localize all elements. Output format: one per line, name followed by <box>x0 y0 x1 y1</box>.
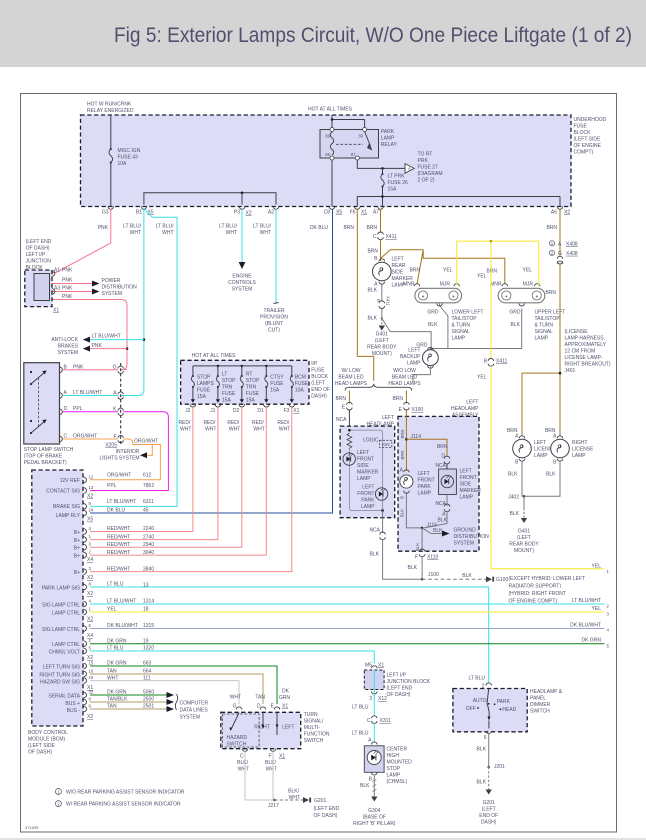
svg-text:YEL: YEL <box>443 268 453 274</box>
svg-text:LEFT I/P: LEFT I/P <box>26 252 46 258</box>
svg-text:J1: J1 <box>210 408 216 414</box>
wire BLK to G401 junction <box>381 309 383 319</box>
svg-text:LIGHTS SYSTEM: LIGHTS SYSTEM <box>99 456 139 462</box>
BCM box <box>32 470 83 726</box>
wire BRN brace left branch <box>348 391 350 404</box>
svg-text:J217: J217 <box>268 803 279 809</box>
svg-text:RED/: RED/ <box>252 420 265 426</box>
svg-text:BLOCK: BLOCK <box>311 374 329 380</box>
svg-text:10A: 10A <box>295 388 305 394</box>
LED lamp left front park <box>375 488 387 500</box>
svg-text:15A: 15A <box>246 398 256 404</box>
terminal F6/X1 <box>355 207 361 210</box>
svg-text:(DIAGRAM: (DIAGRAM <box>418 171 443 177</box>
svg-text:INTERIOR: INTERIOR <box>116 449 140 455</box>
arrow ABS LT BLU/WHT <box>83 337 90 343</box>
CHMSL LED lamp <box>367 751 381 765</box>
svg-text:TRAILER: TRAILER <box>263 308 285 314</box>
svg-text:X205: X205 <box>105 443 117 449</box>
svg-text:X12: X12 <box>378 696 387 702</box>
wire ORG/WHT F to interior lights and BCM <box>90 439 160 480</box>
svg-text:TAIL/STOP: TAIL/STOP <box>535 316 561 322</box>
wire LT BLU 1320 to junction block 2 <box>90 651 374 664</box>
wire LT BLU/WHT B1 to stop lamp switch <box>121 209 144 395</box>
svg-text:B: B <box>376 299 381 302</box>
switch link dashed <box>38 378 40 428</box>
svg-text:G201: G201 <box>483 800 495 806</box>
svg-text:C: C <box>367 718 371 724</box>
junction block JB1 outer <box>25 270 52 307</box>
svg-text:X408: X408 <box>566 241 578 247</box>
svg-text:BRN: BRN <box>545 428 556 434</box>
wire LT BLU/WHT B1 to BCM brake sig <box>90 209 177 506</box>
svg-text:LEFT: LEFT <box>460 469 472 475</box>
wire through junction block 2 <box>373 670 375 695</box>
svg-text:OF DASH): OF DASH) <box>314 813 338 819</box>
svg-text:B1: B1 <box>136 210 142 216</box>
wire LT BLU/WHT to ABS arrow <box>90 339 144 341</box>
wire DK GRN 19 bus5 <box>90 643 605 645</box>
connector X411 B (rotated labels) <box>379 301 385 309</box>
svg-text:BRN: BRN <box>409 268 420 274</box>
svg-text:F: F <box>415 555 418 561</box>
svg-text:PNK: PNK <box>62 294 73 300</box>
svg-text:WHT: WHT <box>266 767 277 773</box>
svg-text:B+: B+ <box>74 570 80 576</box>
wire PPL K to BCM contact sig <box>90 412 168 491</box>
svg-text:BLK: BLK <box>510 511 520 517</box>
svg-text:HOT AT ALL TIMES: HOT AT ALL TIMES <box>308 107 353 113</box>
wire internal bus to A6 <box>357 197 560 207</box>
terminal F X110 <box>419 549 425 557</box>
ground G401 left dashed <box>381 319 383 326</box>
svg-text:ORG/WHT: ORG/WHT <box>134 439 158 445</box>
svg-text:F: F <box>113 434 116 440</box>
svg-text:J100: J100 <box>428 572 439 578</box>
svg-text:LT BLU/WHT: LT BLU/WHT <box>572 598 601 604</box>
svg-text:BRN: BRN <box>546 225 557 231</box>
svg-text:WHT: WHT <box>238 767 249 773</box>
svg-text:FUSE: FUSE <box>197 388 211 394</box>
svg-text:LT: LT <box>222 372 227 378</box>
wire ORG/WHT C to F <box>63 438 119 440</box>
wire BLK dashed to G100 <box>422 578 486 580</box>
svg-text:2940: 2940 <box>143 542 154 548</box>
svg-text:NCA: NCA <box>336 417 347 423</box>
svg-text:DISTRIBUTION: DISTRIBUTION <box>102 285 138 291</box>
node fuse26 junction <box>381 167 384 170</box>
wire BLK/WHT F to J217 <box>272 752 274 801</box>
fuse F26 LT PRK <box>381 173 383 175</box>
svg-text:FRONT: FRONT <box>418 478 435 484</box>
svg-text:30: 30 <box>358 134 363 139</box>
svg-text:COMPUTER: COMPUTER <box>180 701 209 707</box>
svg-text:BRN: BRN <box>545 290 556 296</box>
svg-text:WHT: WHT <box>279 427 290 433</box>
svg-text:LEFT: LEFT <box>466 400 478 406</box>
dimmer switch lever <box>487 689 489 720</box>
connector arcs on BRN A6 wire <box>557 256 563 264</box>
svg-text:SYSTEM: SYSTEM <box>454 541 475 547</box>
svg-text:X100: X100 <box>412 407 424 413</box>
terminal A1 <box>52 271 55 277</box>
svg-text:3040: 3040 <box>143 550 154 556</box>
svg-text:HEAD LAMPS: HEAD LAMPS <box>388 381 421 387</box>
svg-text:X5: X5 <box>87 517 93 523</box>
relay switch arm <box>365 132 371 147</box>
svg-text:BACKUP: BACKUP <box>400 354 421 360</box>
header bar <box>0 0 646 67</box>
svg-text:PNK: PNK <box>62 278 73 284</box>
resistor in headlamp <box>347 433 352 448</box>
svg-text:LAMP: LAMP <box>460 495 474 501</box>
connector X205 K <box>118 408 123 415</box>
svg-text:YEL: YEL <box>477 375 487 381</box>
svg-text:G401: G401 <box>376 332 388 338</box>
svg-text:D: D <box>257 704 261 710</box>
svg-text:2 OF 2): 2 OF 2) <box>418 178 435 184</box>
svg-text:I/P: I/P <box>311 361 318 367</box>
svg-text:RELAY ENERGIZED: RELAY ENERGIZED <box>87 108 134 114</box>
svg-text:LT BLU/WHT: LT BLU/WHT <box>107 499 136 505</box>
wire TAN 2501 bus- <box>90 708 167 710</box>
svg-text:OF DASH): OF DASH) <box>28 750 52 756</box>
wire to X311 <box>373 694 375 717</box>
svg-text:BLK: BLK <box>433 528 443 534</box>
wire YEL turn network <box>457 241 539 358</box>
wire LT BLU/WHT 1314 bus2 <box>90 603 605 605</box>
svg-text:MOUNTED: MOUNTED <box>387 760 413 766</box>
svg-text:Fig 5: Exterior Lamps Circuit,: Fig 5: Exterior Lamps Circuit, W/O One P… <box>114 23 632 47</box>
wire YEL to bus1 <box>491 366 605 569</box>
wire RED/WHT D2 to BCM <box>90 407 242 547</box>
connector X408 1 A <box>549 241 554 246</box>
svg-text:PARK LAMP SIG: PARK LAMP SIG <box>42 586 80 592</box>
svg-text:RADIATOR SUPPORT): RADIATOR SUPPORT) <box>509 584 562 590</box>
ground G401 right dashed <box>523 508 525 518</box>
svg-text:PANEL: PANEL <box>530 696 546 702</box>
svg-text:(LEFT END: (LEFT END <box>314 806 340 812</box>
node J100 <box>421 578 424 581</box>
svg-text:D2: D2 <box>233 408 240 414</box>
wire PNK G3 to junction block A1 <box>52 209 111 272</box>
svg-text:B+: B+ <box>74 546 80 552</box>
svg-text:(TOP OF BRAKE: (TOP OF BRAKE <box>24 454 63 460</box>
terminal G3 <box>108 207 114 210</box>
svg-text:BLK: BLK <box>462 573 472 579</box>
wire BRN F6 to brace <box>357 209 373 381</box>
svg-text:LICENSE LAMP-: LICENSE LAMP- <box>565 355 603 361</box>
svg-text:C: C <box>373 234 377 240</box>
svg-text:DASH): DASH) <box>311 394 327 400</box>
wire PNK G up to main pink <box>123 369 127 371</box>
wire license lamps to J402 <box>522 461 560 508</box>
bottom strip <box>0 838 646 840</box>
connector X411 B yellow <box>488 359 494 367</box>
svg-text:15A: 15A <box>388 187 398 193</box>
svg-text:DIMMER: DIMMER <box>530 702 551 708</box>
svg-text:APPROXIMATELY: APPROXIMATELY <box>565 342 607 348</box>
terminal C stop switch <box>60 436 63 442</box>
svg-text:SIDE: SIDE <box>392 270 404 276</box>
svg-text:85: 85 <box>325 152 330 157</box>
terminal P3/X2 <box>239 207 245 210</box>
svg-text:PARK: PARK <box>381 129 395 135</box>
svg-text:F: F <box>268 754 271 760</box>
arrow power distribution 1 <box>92 281 100 287</box>
tail lamp upper terminals <box>502 284 540 306</box>
svg-text:DK BLU: DK BLU <box>310 225 328 231</box>
svg-text:LEFT: LEFT <box>282 725 294 731</box>
svg-text:FUSE 27: FUSE 27 <box>418 165 439 171</box>
svg-text:15A: 15A <box>222 398 232 404</box>
relay terminal circles <box>330 128 334 132</box>
svg-text:SIGNAL: SIGNAL <box>452 329 471 335</box>
svg-text:X110: X110 <box>427 555 439 561</box>
connector X411 C <box>378 232 384 240</box>
node backup ground junction <box>430 347 432 349</box>
svg-text:WHT: WHT <box>260 230 271 236</box>
svg-text:G201: G201 <box>314 798 326 804</box>
svg-text:GROUND: GROUND <box>454 528 477 534</box>
svg-text:13: 13 <box>89 485 94 490</box>
wire to bottom terminal <box>488 721 490 729</box>
svg-text:POWER: POWER <box>102 278 121 284</box>
svg-text:ORG/WHT: ORG/WHT <box>107 473 131 479</box>
backup lamp <box>423 350 439 366</box>
svg-text:& TURN: & TURN <box>535 323 554 329</box>
switch arm upper <box>31 372 45 384</box>
node exit <box>381 509 384 512</box>
svg-text:BRN: BRN <box>366 225 377 231</box>
svg-text:REAR: REAR <box>392 263 406 269</box>
svg-text:7862: 7862 <box>143 483 154 489</box>
wire BRN X411 to side marker B <box>380 240 382 262</box>
svg-text:RED/WHT: RED/WHT <box>107 542 130 548</box>
node J201 <box>487 766 490 769</box>
wire DK GRN 663 to turn switch E <box>90 666 277 704</box>
svg-text:CONTACT SIG: CONTACT SIG <box>46 489 80 495</box>
svg-text:SIGNAL: SIGNAL <box>535 329 554 335</box>
svg-text:G100: G100 <box>496 577 508 583</box>
svg-text:12: 12 <box>89 475 94 480</box>
svg-text:COMPT): COMPT) <box>574 150 594 156</box>
wire TAN 664 to turn switch D <box>90 674 263 704</box>
brace split <box>345 384 412 391</box>
svg-text:SWITCH: SWITCH <box>227 742 247 748</box>
left headlamp box <box>340 426 395 518</box>
svg-text:BEAM LED: BEAM LED <box>392 375 418 381</box>
wire BRN to tail lamp minors <box>381 250 505 284</box>
svg-text:& TURN: & TURN <box>452 323 471 329</box>
wire DK GRN 5060 serial data <box>90 694 167 696</box>
wire park lamp B to J116 <box>406 492 422 528</box>
svg-text:LEFT I/P: LEFT I/P <box>387 673 407 679</box>
LED lamp front side marker (assembly) <box>441 475 453 487</box>
svg-text:SWITCH: SWITCH <box>304 738 324 744</box>
wire black into left headlamp <box>348 410 350 430</box>
headlamp panel dimmer switch box <box>453 689 527 732</box>
left headlamp internal loop <box>349 430 382 510</box>
svg-text:B+: B+ <box>74 530 80 536</box>
bottom terminals C F X1 <box>242 749 276 752</box>
connector X408 2 G <box>549 250 554 255</box>
svg-text:BRN: BRN <box>486 269 497 275</box>
CHMSL box <box>364 746 384 773</box>
terminal C8/X5 <box>329 207 335 210</box>
wire RED/WHT J2 to BCM <box>90 407 193 532</box>
turn signal multifunction switch box <box>221 712 301 748</box>
node bus junction <box>381 195 384 198</box>
connector X205 dashed line <box>120 363 122 446</box>
svg-text:X1: X1 <box>53 308 59 314</box>
terminal A3 <box>52 289 55 295</box>
rear side marker lamp <box>373 262 392 281</box>
svg-text:LAMP: LAMP <box>534 453 548 459</box>
svg-text:B: B <box>400 496 405 499</box>
svg-text:W/O REAR PARKING ASSIST SENSOR: W/O REAR PARKING ASSIST SENSOR INDICATOR <box>66 790 185 796</box>
wire CHMSL B to G304 <box>373 776 375 797</box>
svg-text:BLOCK: BLOCK <box>574 130 592 136</box>
wire BLK ground bus to backup lamp <box>382 302 522 351</box>
svg-text:GRD: GRD <box>427 310 439 316</box>
svg-text:2740: 2740 <box>143 534 154 540</box>
terminal B CHMSL <box>371 773 377 776</box>
LED lamp left front side marker <box>343 453 355 465</box>
svg-text:LT BLU/: LT BLU/ <box>219 224 237 230</box>
svg-text:W/O LOW: W/O LOW <box>393 368 416 374</box>
svg-text:UPPER LEFT: UPPER LEFT <box>535 310 566 316</box>
svg-text:WHT: WHT <box>162 230 173 236</box>
svg-text:MULTI-: MULTI- <box>304 725 321 731</box>
wire into sub box <box>446 464 448 470</box>
svg-text:LAMP: LAMP <box>361 504 375 510</box>
svg-text:FUSE: FUSE <box>222 391 236 397</box>
svg-text:SIG LAMP CTRL: SIG LAMP CTRL <box>42 627 80 633</box>
connector X205 G <box>118 366 123 373</box>
svg-text:WHT: WHT <box>229 427 240 433</box>
svg-text:OF DASH): OF DASH) <box>26 246 50 252</box>
svg-text:BLK/: BLK/ <box>265 760 276 766</box>
hazard switch sub box <box>223 714 260 747</box>
svg-text:MJR: MJR <box>440 282 451 288</box>
svg-text:FUSE: FUSE <box>270 381 284 387</box>
svg-text:PNK: PNK <box>62 268 73 274</box>
svg-text:W/ REAR PARKING ASSIST SENSOR: W/ REAR PARKING ASSIST SENSOR INDICATOR <box>66 802 181 808</box>
svg-text:STOP LAMP SWITCH: STOP LAMP SWITCH <box>24 447 74 453</box>
svg-text:LEFT: LEFT <box>408 348 420 354</box>
svg-text:BRN: BRN <box>437 444 448 450</box>
svg-text:LAMP CTRL: LAMP CTRL <box>52 642 80 648</box>
node LT BLU/WHT ABS branch <box>143 338 146 341</box>
svg-text:12 CM FROM: 12 CM FROM <box>565 349 596 355</box>
svg-text:LAMP: LAMP <box>418 491 432 497</box>
svg-text:HEAD LAMPS: HEAD LAMPS <box>335 381 368 387</box>
ground wire dashed to G201 <box>488 767 490 790</box>
wire BRN into assembly <box>405 410 407 471</box>
svg-text:J401: J401 <box>565 368 576 374</box>
relay link dashed <box>336 143 363 145</box>
svg-text:FRONT: FRONT <box>357 457 374 463</box>
svg-text:CTSY: CTSY <box>270 375 284 381</box>
svg-text:15A: 15A <box>197 394 207 400</box>
terminal D stop switch <box>60 409 63 415</box>
svg-text:A3: A3 <box>54 286 60 292</box>
svg-text:RELAY: RELAY <box>381 142 398 148</box>
svg-text:LT BLU/WHT: LT BLU/WHT <box>92 334 121 340</box>
wire ground distribution branch <box>422 528 442 534</box>
connector X205 A <box>118 392 123 399</box>
svg-text:WHT: WHT <box>130 230 141 236</box>
wire RED/WHT F3 to BCM <box>90 407 292 572</box>
svg-text:DK BLU/WHT: DK BLU/WHT <box>570 623 601 629</box>
svg-text:BODY CONTROL: BODY CONTROL <box>28 730 68 736</box>
svg-text:FUSE: FUSE <box>295 381 309 387</box>
svg-text:W/ LOW: W/ LOW <box>342 368 361 374</box>
svg-text:BLK: BLK <box>511 322 521 328</box>
svg-text:LICENSE: LICENSE <box>572 447 594 453</box>
svg-text:LT PRK: LT PRK <box>388 174 406 180</box>
svg-text:(LEFT END: (LEFT END <box>26 239 52 245</box>
svg-text:MOUNT): MOUNT) <box>514 548 534 554</box>
svg-text:X2: X2 <box>87 591 93 597</box>
svg-text:BLK/: BLK/ <box>288 789 299 795</box>
svg-text:FUNCTION: FUNCTION <box>304 732 330 738</box>
svg-text:BLK: BLK <box>360 783 370 789</box>
node J401 <box>559 372 562 375</box>
svg-text:F3: F3 <box>283 408 289 414</box>
svg-text:RIGHT TURN SIG: RIGHT TURN SIG <box>39 673 80 679</box>
connector X205 F <box>118 435 123 442</box>
svg-text:LEFT TURN SIG: LEFT TURN SIG <box>43 665 80 671</box>
svg-text:RIGHT BREAKOUT): RIGHT BREAKOUT) <box>565 362 611 368</box>
svg-text:PARK: PARK <box>497 699 511 705</box>
svg-text:DASH): DASH) <box>481 820 497 826</box>
svg-text:A7: A7 <box>373 210 379 216</box>
svg-text:LAMP: LAMP <box>387 773 401 779</box>
svg-text:X2: X2 <box>87 575 93 581</box>
tail lamp lower housing <box>415 288 462 303</box>
svg-text:END OF: END OF <box>479 813 498 819</box>
svg-text:X2: X2 <box>246 211 252 217</box>
wire dashed to G201 <box>275 799 304 801</box>
terminals G D E X1 turn switch <box>236 707 280 710</box>
svg-text:BLK: BLK <box>546 472 556 478</box>
svg-text:24: 24 <box>89 508 94 513</box>
svg-text:YEL: YEL <box>523 268 533 274</box>
svg-text:(LEFT: (LEFT <box>311 381 325 387</box>
tail lamp lower bulbs <box>418 291 427 300</box>
svg-text:STOP: STOP <box>197 375 211 381</box>
svg-text:X4: X4 <box>87 633 93 639</box>
svg-text:X411: X411 <box>496 359 508 365</box>
svg-text:ANTI-LOCK: ANTI-LOCK <box>51 337 78 343</box>
wire DK BLU C8 to BCM lamp rly <box>90 209 333 513</box>
switch arm lower <box>31 421 45 433</box>
fuse RT STOP TRN 15A <box>241 375 243 377</box>
svg-text:MISC IGN: MISC IGN <box>118 148 141 154</box>
svg-text:REAR BODY: REAR BODY <box>367 345 397 351</box>
svg-text:DK GRN: DK GRN <box>582 638 602 644</box>
node PNK ABS branch <box>126 347 129 350</box>
svg-text:ENGINE: ENGINE <box>232 274 252 280</box>
svg-text:87: 87 <box>351 152 356 157</box>
fuse F26 LT PRK wire <box>382 168 384 196</box>
svg-text:SIDE: SIDE <box>460 482 472 488</box>
svg-text:CENTER: CENTER <box>387 747 408 753</box>
wire internal park bus B1 P3 A2 <box>144 193 276 205</box>
svg-text:X5: X5 <box>148 210 154 216</box>
